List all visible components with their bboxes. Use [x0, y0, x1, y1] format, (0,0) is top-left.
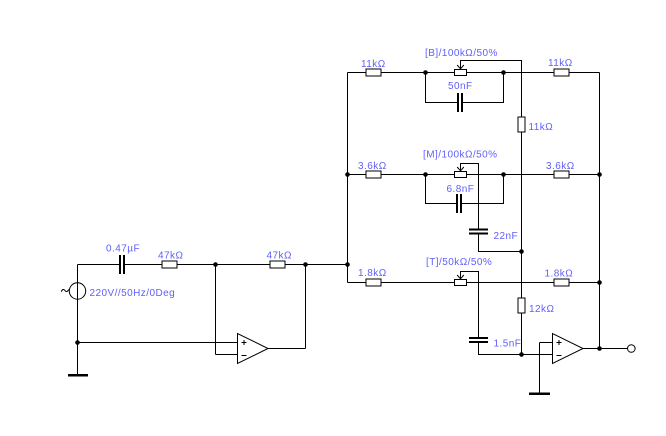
svg-text:50nF: 50nF	[448, 81, 473, 92]
node right rail row M	[597, 172, 602, 177]
node row M left	[423, 172, 428, 177]
wire row T	[348, 282, 600, 284]
node right rail row T	[597, 280, 602, 285]
wire input row after C1	[125, 264, 348, 266]
node 22nF mid rail	[519, 249, 524, 254]
wire 1.5nF bottom to node	[479, 343, 522, 355]
wire 50nF loop right	[463, 73, 504, 103]
svg-text:3.6kΩ: 3.6kΩ	[546, 161, 575, 172]
capacitor 50nF plates	[457, 93, 463, 112]
svg-text:1.5nF: 1.5nF	[494, 339, 522, 350]
svg-text:12kΩ: 12kΩ	[529, 304, 554, 315]
svg-text:1.8kΩ: 1.8kΩ	[545, 269, 574, 280]
wire pot T wiper loop	[461, 272, 479, 338]
wire opamp2 plus input	[540, 342, 553, 344]
resistor 11k row B right	[554, 69, 569, 76]
resistor 12k vertical	[518, 298, 525, 313]
wire opamp1 minus branch horizontal	[216, 354, 238, 356]
wire opamp2 minus input	[522, 354, 553, 356]
wire source vertical	[77, 265, 79, 375]
wire 6.8nF loop right	[462, 175, 504, 204]
svg-text:47kΩ: 47kΩ	[267, 251, 292, 262]
svg-text:11kΩ: 11kΩ	[361, 59, 386, 70]
wire opamp2 ground stem	[539, 343, 541, 394]
node input to left rail	[345, 262, 350, 267]
wire 6.8nF loop left	[426, 175, 457, 204]
potentiometer B arrow	[457, 65, 464, 68]
svg-text:1.8kΩ: 1.8kΩ	[358, 268, 387, 279]
wire 22nF bottom to mid rail	[479, 235, 522, 252]
wire pot B wiper loop	[461, 61, 522, 118]
wire left rail	[347, 73, 349, 283]
node opamp1 feedback	[303, 262, 308, 267]
node opamp2 minus	[519, 352, 524, 357]
wire opamp2 output	[583, 348, 628, 350]
op-amp U2	[553, 334, 584, 364]
resistor 11k row B left	[366, 69, 381, 76]
potentiometer M arrow	[457, 167, 464, 170]
svg-text:220V//50Hz/0Deg: 220V//50Hz/0Deg	[90, 288, 176, 299]
svg-text:[B]/100kΩ/50%: [B]/100kΩ/50%	[425, 48, 498, 59]
svg-text:22nF: 22nF	[494, 231, 519, 242]
ground source	[68, 374, 88, 377]
wire mid rail upper	[521, 132, 523, 298]
resistor 1.8k row T left	[366, 279, 381, 286]
node source/plus/ground	[75, 340, 80, 345]
wire pot M wiper loop	[461, 164, 479, 229]
node row M right	[501, 172, 506, 177]
potentiometer T arrow	[457, 275, 464, 278]
wires (crisp orthogonal)	[78, 61, 628, 394]
svg-text:[T]/50kΩ/50%: [T]/50kΩ/50%	[426, 257, 492, 268]
node output	[597, 346, 602, 351]
output terminal	[628, 345, 636, 353]
wire mid rail lower	[521, 313, 523, 355]
capacitor 0.47uF plates	[119, 255, 125, 274]
resistor 1.8k row T right	[554, 279, 569, 286]
wire opamp1 feedback vertical	[305, 265, 307, 349]
wire opamp1 minus branch vertical	[215, 265, 217, 355]
svg-text:0.47µF: 0.47µF	[106, 244, 140, 255]
ground opamp2	[529, 393, 550, 396]
resistor 11k vertical	[518, 117, 525, 132]
potentiometer B body	[455, 70, 467, 76]
node left rail row M	[345, 172, 350, 177]
resistor 47k feedback (second)	[270, 261, 285, 268]
wire right rail	[599, 73, 601, 349]
svg-text:11kΩ: 11kΩ	[529, 122, 554, 133]
resistor 3.6k row M right	[554, 171, 569, 178]
svg-text:[M]/100kΩ/50%: [M]/100kΩ/50%	[423, 149, 497, 160]
wire opamp1 output	[268, 348, 306, 350]
capacitor 6.8nF plates	[456, 194, 462, 213]
potentiometer M body	[455, 172, 467, 178]
wire row B	[348, 72, 600, 74]
node opamp1 minus	[213, 262, 218, 267]
capacitor 22nF plates	[469, 229, 488, 235]
capacitor 1.5nF plates	[469, 337, 488, 343]
node row B left	[423, 70, 428, 75]
svg-text:11kΩ: 11kΩ	[548, 58, 573, 69]
wire input top left	[78, 264, 120, 266]
svg-text:3.6kΩ: 3.6kΩ	[358, 161, 387, 172]
wire row M	[348, 174, 600, 176]
wire 50nF loop left	[426, 73, 458, 103]
wire opamp1 plus input	[78, 342, 238, 344]
svg-text:47kΩ: 47kΩ	[158, 251, 183, 262]
potentiometer T body	[455, 280, 467, 286]
resistor 47k input (first)	[162, 261, 177, 268]
svg-text:6.8nF: 6.8nF	[447, 184, 475, 195]
op-amp U1	[238, 334, 269, 364]
AC source V1	[61, 283, 85, 299]
node row B right	[501, 70, 506, 75]
resistor 3.6k row M left	[366, 171, 381, 178]
